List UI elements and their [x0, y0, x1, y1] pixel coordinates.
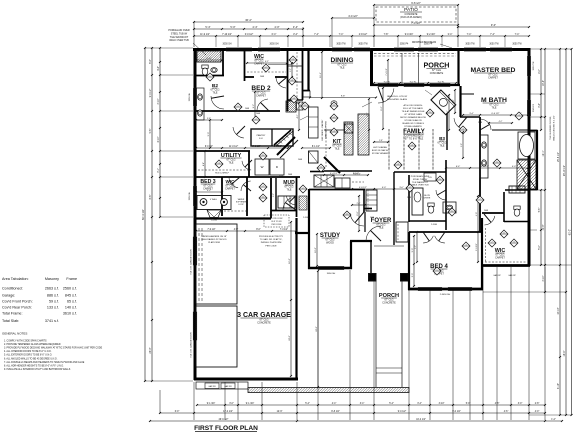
wall utility bottom — [194, 176, 300, 178]
svg-text:2468: 2468 — [279, 176, 283, 178]
svg-text:5'-8": 5'-8" — [539, 208, 541, 213]
door bed3 — [229, 177, 238, 188]
svg-text:5. ALL EXTERIOR DOORS TO BE 8: 5. ALL EXTERIOR DOORS TO BE 8'-0" U.N.O. — [4, 354, 53, 357]
window dining top 1 — [332, 47, 352, 49]
svg-text:5'-2": 5'-2" — [290, 68, 292, 72]
svg-text:CONCRETE: CONCRETE — [405, 14, 418, 16]
corridor cubbies — [314, 175, 334, 187]
window right wall master — [527, 56, 529, 76]
svg-text:2868: 2868 — [350, 189, 354, 191]
svg-text:59 s.f.: 59 s.f. — [49, 300, 59, 304]
wall bed4 top — [409, 231, 482, 233]
svg-text:HUTCH AREA: HUTCH AREA — [373, 146, 387, 149]
wall utility top — [194, 150, 250, 152]
svg-text:3'-0 1/2": 3'-0 1/2" — [245, 34, 254, 36]
linen b3 — [424, 173, 436, 181]
wall mud bottom — [271, 210, 297, 212]
svg-text:DROPPED BOX BEAM: DROPPED BOX BEAM — [412, 41, 436, 44]
svg-text:9'-2 3/4": 9'-2 3/4" — [427, 34, 436, 36]
svg-text:7'-4": 7'-4" — [515, 34, 520, 36]
toilet bath2 — [202, 65, 208, 75]
svg-text:10'-0": 10'-0" — [315, 247, 317, 253]
svg-text:3'-0": 3'-0" — [229, 403, 234, 405]
kitchen range — [345, 124, 354, 133]
dim patio width — [374, 24, 458, 26]
svg-text:3'-0": 3'-0" — [399, 187, 404, 189]
window study front — [318, 266, 344, 268]
door mud to hall — [287, 196, 296, 205]
svg-text:5'-4": 5'-4" — [205, 25, 210, 29]
svg-text:JAMB FULL LITE W/: JAMB FULL LITE W/ — [387, 95, 408, 98]
svg-text:14'-6": 14'-6" — [564, 350, 566, 356]
svg-text:7. ALL DOUBLE 2x BEAMS AND HE: 7. ALL DOUBLE 2x BEAMS AND HEADERS TO HA… — [4, 361, 85, 364]
interior dim garage right vertical — [290, 222, 292, 376]
svg-text:TILE WAINSCOT: TILE WAINSCOT — [412, 181, 429, 184]
svg-text:4'-0": 4'-0" — [274, 25, 279, 29]
svg-text:8'-1 1/2": 8'-1 1/2" — [312, 146, 320, 148]
svg-text:SLOPE CONC: SLOPE CONC — [270, 218, 283, 220]
sink bath2 — [211, 68, 217, 73]
kitchen pendant oval — [331, 101, 337, 105]
svg-text:4'-0": 4'-0" — [512, 166, 517, 168]
svg-text:9'-2": 9'-2" — [381, 106, 383, 111]
wall outer right — [528, 48, 531, 266]
svg-text:4'-2": 4'-2" — [297, 114, 299, 118]
svg-text:CARPET: CARPET — [225, 187, 235, 190]
pantry divider — [271, 129, 273, 146]
right dim outer — [571, 49, 573, 415]
corridor rod dashed — [352, 181, 364, 183]
closet foyer bed4 — [396, 222, 408, 242]
wall hall closets right — [302, 49, 304, 100]
svg-text:4'-0": 4'-0" — [476, 212, 478, 216]
extra small dims and marks — [196, 59, 222, 61]
window wic2 top — [258, 47, 280, 49]
svg-text:20'-0": 20'-0" — [150, 347, 152, 353]
mud lockers — [278, 196, 295, 208]
wall foyer right — [393, 172, 395, 245]
wall outer left — [194, 48, 197, 380]
interior dim chain center — [302, 147, 330, 149]
dim patio left — [332, 17, 374, 19]
svg-text:2-2668: 2-2668 — [377, 85, 383, 87]
door hall to corridor — [233, 127, 244, 138]
wall family east upper — [446, 113, 448, 150]
svg-text:9'-2": 9'-2" — [253, 104, 255, 109]
dining west double wall — [307, 51, 309, 90]
svg-text:TILE: TILE — [491, 106, 496, 109]
window right wall mbath — [527, 100, 529, 116]
svg-text:29'-6 1/2": 29'-6 1/2" — [219, 419, 229, 421]
wall bath2 bottom — [194, 75, 224, 77]
wall wic top — [482, 212, 504, 214]
svg-text:6'-0": 6'-0" — [357, 211, 359, 216]
door foyer entry — [366, 226, 381, 241]
svg-text:3'-10": 3'-10" — [158, 98, 160, 104]
dining south dim line — [310, 97, 376, 99]
wall toilet cell left — [503, 192, 505, 222]
svg-text:2468: 2468 — [260, 76, 264, 78]
svg-text:6'-10": 6'-10" — [558, 383, 560, 389]
svg-text:9'-0 1/2": 9'-0 1/2" — [205, 146, 213, 148]
wall corridor bottom — [194, 110, 280, 112]
svg-text:FLR TO DR: FLR TO DR — [272, 221, 283, 223]
svg-text:2468: 2468 — [298, 159, 302, 161]
front walk lines — [375, 281, 377, 387]
svg-text:3610 s.f.: 3610 s.f. — [63, 312, 77, 316]
svg-text:3050 SH: 3050 SH — [327, 273, 336, 275]
svg-text:42" UPPER CABS: 42" UPPER CABS — [404, 113, 422, 116]
svg-text:6. ALL ANGLED WALLS TO BE 45: 6. ALL ANGLED WALLS TO BE 45 DEGREE U.N.… — [4, 357, 58, 360]
svg-text:2668: 2668 — [478, 122, 482, 124]
garage platform rect lower — [196, 306, 237, 367]
wall bath2 right — [222, 49, 224, 76]
utility rod shelf dashed — [198, 169, 248, 171]
svg-text:GAS F/P: GAS F/P — [493, 274, 501, 277]
entry porch column left — [369, 274, 377, 282]
porch dim vertical — [387, 60, 389, 84]
interior dim kitchen lower — [324, 174, 368, 176]
svg-text:2'-4": 2'-4" — [357, 203, 361, 205]
svg-text:6'-4": 6'-4" — [456, 166, 461, 168]
wall study bottom — [308, 267, 352, 269]
dim top overall left wing — [194, 21, 303, 23]
bed3 vanity — [197, 196, 231, 210]
linen cab shower wall — [509, 186, 525, 193]
extension lines to bottom dims — [224, 382, 226, 420]
eave dashed line rear — [374, 53, 456, 55]
svg-text:3'-4": 3'-4" — [360, 403, 365, 405]
svg-text:FIRST FLOOR PLAN: FIRST FLOOR PLAN — [194, 425, 258, 432]
master tub deck — [518, 132, 535, 159]
svg-text:2-2668: 2-2668 — [303, 217, 309, 219]
patio dashed outline — [376, 7, 456, 22]
svg-text:TILE: TILE — [286, 188, 291, 191]
garage platform rect upper — [196, 224, 237, 304]
left dim outer — [144, 48, 146, 381]
svg-text:2'-8": 2'-8" — [535, 403, 540, 405]
interior dim mbath — [463, 114, 528, 116]
svg-text:5'-8": 5'-8" — [150, 129, 152, 134]
svg-text:CARPET: CARPET — [495, 256, 505, 259]
svg-text:4'-6": 4'-6" — [504, 411, 509, 413]
interior dim east hall — [446, 167, 528, 169]
wall study top — [309, 189, 365, 191]
svg-text:STONE VENEER: STONE VENEER — [372, 153, 389, 155]
wall garage top — [194, 217, 271, 219]
wall entry porch right bed4 left — [408, 232, 410, 290]
svg-text:6'-0": 6'-0" — [175, 411, 180, 413]
svg-text:3'-4": 3'-4" — [417, 403, 422, 405]
wall dining east porch left — [370, 48, 373, 86]
svg-text:24'-0": 24'-0" — [316, 326, 318, 332]
window bed4 front 1 — [418, 287, 442, 289]
wall b3 top — [394, 171, 446, 173]
svg-text:9'-8 1/2": 9'-8 1/2" — [331, 411, 340, 413]
svg-text:CABS 42" UPPERS: CABS 42" UPPERS — [325, 120, 328, 138]
wall bed3 wic divider — [221, 177, 223, 216]
wall kitchen family divider lower — [324, 170, 372, 172]
svg-text:845 s.f.: 845 s.f. — [65, 294, 77, 298]
family dashed coffer lines — [388, 129, 390, 170]
svg-text:2'-8 1/2": 2'-8 1/2" — [359, 34, 368, 36]
interior dim b3 hall — [352, 188, 409, 190]
porch front interior lines — [374, 245, 404, 247]
garage stoop — [196, 382, 248, 389]
svg-text:WALK OVER TUB: WALK OVER TUB — [412, 184, 430, 187]
svg-text:67" TO 8'-0" TILE: 67" TO 8'-0" TILE — [405, 137, 424, 140]
svg-text:9'-8": 9'-8" — [341, 96, 346, 98]
window porch posts top — [394, 47, 414, 49]
svg-text:4'-0": 4'-0" — [535, 411, 540, 413]
svg-text:TILE AT RAISED EDGE: TILE AT RAISED EDGE — [402, 110, 425, 113]
svg-text:2468: 2468 — [288, 174, 292, 176]
svg-text:3'-4": 3'-4" — [469, 113, 474, 115]
b2 vanity rect — [196, 88, 204, 120]
svg-text:CONCRETE: CONCRETE — [430, 72, 444, 75]
svg-text:1'-2": 1'-2" — [551, 419, 556, 421]
svg-text:3'-4": 3'-4" — [539, 103, 541, 108]
wall front at hall — [295, 232, 310, 234]
window dining top 2 — [354, 47, 370, 49]
wall foyer left — [364, 212, 366, 232]
wall hall b3 right — [445, 160, 447, 230]
svg-text:3'-4": 3'-4" — [293, 34, 298, 36]
svg-text:7'-4": 7'-4" — [339, 34, 344, 36]
mbath vanity counter — [480, 135, 488, 178]
svg-text:ISLAND W/ CORBELS: ISLAND W/ CORBELS — [402, 122, 424, 125]
svg-text:4'-4": 4'-4" — [203, 162, 205, 166]
svg-text:5'-0": 5'-0" — [208, 132, 210, 137]
wic2 rod dashed lines — [247, 71, 286, 73]
svg-text:7'-4": 7'-4" — [467, 34, 472, 36]
wall shower toilet divider — [505, 189, 529, 191]
garage dashed door tracks — [198, 228, 200, 302]
washer dryer utility — [255, 159, 269, 175]
svg-text:INSULATED GLASS: INSULATED GLASS — [387, 98, 408, 101]
svg-text:7'-9 1/2": 7'-9 1/2" — [207, 229, 215, 231]
svg-text:(FUR AS PLANNED): (FUR AS PLANNED) — [400, 16, 422, 19]
wall bed4 bottom — [408, 288, 483, 291]
wall front between study and porch — [350, 240, 372, 242]
right dim 4 — [559, 49, 561, 415]
svg-text:7'-4 1/2": 7'-4 1/2" — [386, 68, 388, 76]
dim top right seg — [458, 26, 529, 28]
mbath east bump walls — [529, 130, 538, 132]
svg-text:PANTRY: PANTRY — [257, 134, 266, 137]
leader wic label — [268, 64, 292, 66]
svg-text:B3: B3 — [439, 136, 445, 141]
svg-text:4'-0": 4'-0" — [382, 187, 387, 189]
toilet master — [514, 206, 520, 216]
svg-text:4' WALL: 4' WALL — [210, 198, 217, 201]
svg-text:3741 s.f.: 3741 s.f. — [45, 319, 59, 323]
svg-text:DRYER: DRYER — [424, 198, 431, 200]
svg-text:AT HOOD DESIGN:: AT HOOD DESIGN: — [404, 104, 423, 107]
wall utility right — [248, 151, 250, 177]
svg-text:3'-4": 3'-4" — [293, 25, 298, 29]
svg-text:9'-1 1/2": 9'-1 1/2" — [476, 243, 478, 251]
door rear porch to family — [378, 88, 394, 103]
svg-text:9'-0": 9'-0" — [491, 23, 496, 27]
svg-text:4'-4": 4'-4" — [252, 25, 257, 29]
window left wall b2 — [193, 88, 195, 106]
svg-text:2468: 2468 — [370, 217, 374, 219]
svg-text:5'-0": 5'-0" — [230, 25, 235, 29]
svg-text:3'-10": 3'-10" — [439, 403, 445, 405]
wall mud right — [296, 177, 298, 217]
door garage mud — [283, 198, 292, 210]
wall entry porch left — [370, 241, 372, 275]
wall b3 bottom — [409, 220, 446, 222]
kitchen wall counters — [325, 130, 327, 168]
b3 toilet — [428, 203, 434, 213]
kitchen west cabinets — [309, 107, 319, 138]
mbath door — [480, 119, 491, 130]
svg-text:6'-4": 6'-4" — [272, 34, 277, 36]
svg-text:STONE-GRANITE: STONE-GRANITE — [404, 125, 422, 128]
wall study right upper — [363, 190, 365, 212]
svg-text:2468: 2468 — [407, 197, 411, 199]
svg-text:BUILT-IN CAB W/: BUILT-IN CAB W/ — [372, 149, 389, 152]
svg-text:Frame: Frame — [66, 277, 77, 281]
svg-text:WALLS-CEILING 8'-1 1/2": WALLS-CEILING 8'-1 1/2" — [553, 115, 556, 141]
wall hall mid horizontal — [288, 99, 303, 101]
svg-text:STONE SLAB ON: STONE SLAB ON — [404, 119, 422, 122]
svg-text:TILE: TILE — [228, 161, 233, 164]
svg-text:3'-0": 3'-0" — [412, 273, 414, 278]
svg-text:12'-1": 12'-1" — [543, 150, 545, 156]
svg-text:2663 s.f.: 2663 s.f. — [45, 287, 59, 291]
interior dim bed2 vertical — [254, 92, 256, 120]
svg-text:5'x5': 5'x5' — [259, 138, 264, 140]
interior dim study vertical — [316, 234, 318, 266]
wall rear porch bottom — [370, 84, 460, 86]
svg-text:PROVIDE ELECTRICITY: PROVIDE ELECTRICITY — [259, 236, 284, 238]
svg-text:2-2660: 2-2660 — [431, 224, 437, 226]
door wic master — [484, 216, 494, 225]
svg-text:3050 P4: 3050 P4 — [400, 44, 409, 46]
svg-text:11'-9 1/2": 11'-9 1/2" — [200, 34, 210, 36]
svg-text:4'-1 1/2": 4'-1 1/2" — [481, 166, 489, 168]
svg-text:1. COMPLY WITH CODE SPAN CHAR: 1. COMPLY WITH CODE SPAN CHARTS — [4, 340, 47, 343]
svg-text:5'-0": 5'-0" — [539, 245, 541, 250]
svg-text:4. ALL INTERIOR DOORS TO BE 8: 4. ALL INTERIOR DOORS TO BE 8'-0" U.N.O. — [4, 350, 52, 353]
kitchen ovens — [309, 151, 319, 163]
svg-text:FULL HT TILE BACK: FULL HT TILE BACK — [403, 107, 424, 110]
closet shelves hall column — [288, 65, 303, 67]
wall study right — [350, 241, 352, 269]
interior dim foyer vertical — [358, 196, 360, 231]
svg-text:9'x8' O.H. GARAGE DOOR: 9'x8' O.H. GARAGE DOOR — [190, 249, 193, 275]
closet rod dashed hall — [296, 52, 298, 98]
svg-text:140 s.f.: 140 s.f. — [65, 306, 77, 310]
interior dim dining vertical — [321, 52, 323, 98]
svg-text:Conditioned:: Conditioned: — [2, 287, 23, 291]
window left wall bed3 — [193, 186, 195, 206]
interior dim chain west — [196, 147, 288, 149]
svg-text:3050 TW: 3050 TW — [489, 44, 499, 46]
svg-text:9'-0 3/4": 9'-0 3/4" — [405, 34, 414, 36]
svg-text:11'-0 1/2": 11'-0 1/2" — [229, 146, 239, 148]
svg-text:CARPET: CARPET — [488, 76, 498, 79]
bath2 door arc — [211, 96, 224, 109]
dim top sub row left — [194, 28, 303, 30]
front walk steps — [376, 367, 402, 369]
right dim 2 — [544, 49, 546, 292]
wall corridor top — [310, 171, 324, 173]
misc leader arrows — [362, 102, 372, 107]
svg-text:3050 TW: 3050 TW — [512, 44, 522, 46]
window bed4 front 2 — [448, 287, 472, 289]
door utility — [242, 161, 251, 170]
svg-text:3050 TW: 3050 TW — [465, 44, 475, 46]
svg-text:5'-4": 5'-4" — [305, 403, 310, 405]
right dim 1 — [540, 49, 542, 130]
svg-text:3050 SH: 3050 SH — [270, 44, 279, 46]
svg-text:2-2460: 2-2460 — [211, 220, 217, 222]
svg-text:4'-0 1/2": 4'-0 1/2" — [348, 14, 358, 18]
svg-text:4'-8 1/2": 4'-8 1/2" — [359, 187, 367, 189]
svg-text:8. ALL HDR-HEADER HEIGHTS TO: 8. ALL HDR-HEADER HEIGHTS TO BE 8'-0" A.… — [4, 364, 64, 367]
svg-text:CONCRETE: CONCRETE — [257, 321, 271, 324]
b3 tub — [412, 188, 423, 215]
wall mud chase — [275, 178, 277, 210]
svg-text:ROD & SHELF: ROD & SHELF — [215, 173, 230, 175]
b2 sink ovals — [198, 94, 203, 100]
svg-text:4'-6": 4'-6" — [453, 99, 455, 103]
wall wic2 bed2 divider — [244, 76, 254, 78]
interior dim wic vertical — [477, 196, 479, 262]
svg-text:4'-6": 4'-6" — [234, 229, 239, 231]
kitchen corner angled wall — [324, 157, 340, 173]
left dim inner — [159, 48, 161, 217]
svg-text:4'-4": 4'-4" — [158, 66, 160, 71]
svg-text:3050 SH: 3050 SH — [189, 92, 191, 101]
svg-text:5'-8": 5'-8" — [207, 118, 211, 120]
svg-text:WOOD: WOOD — [326, 241, 334, 244]
svg-text:2'-8": 2'-8" — [379, 140, 383, 142]
svg-text:Cov'd Rear Porch:: Cov'd Rear Porch: — [2, 306, 32, 310]
svg-text:TILE: TILE — [378, 226, 383, 229]
keynote diamonds — [234, 103, 242, 111]
svg-text:6'-2": 6'-2" — [265, 61, 269, 63]
svg-text:36'-4": 36'-4" — [245, 18, 252, 22]
svg-text:LOOP: LOOP — [238, 204, 244, 206]
svg-text:9'x8' O.H. GARAGE DOOR: 9'x8' O.H. GARAGE DOOR — [190, 332, 193, 358]
svg-text:7'-4 1/2": 7'-4 1/2" — [411, 21, 421, 25]
wall master bed stub — [460, 93, 474, 95]
svg-text:INSTALL PLATFORM: INSTALL PLATFORM — [261, 241, 282, 244]
svg-text:11'-1": 11'-1" — [320, 72, 322, 78]
bottom dim row 3 — [150, 420, 562, 422]
svg-text:886 s.f.: 886 s.f. — [47, 294, 59, 298]
b3 door — [436, 190, 446, 200]
svg-text:44'-4 1/2": 44'-4 1/2" — [416, 419, 426, 421]
bottom dim row 2 — [160, 412, 545, 414]
svg-text:9'-1 3/4": 9'-1 3/4" — [207, 403, 216, 405]
porch beam lines — [401, 53, 403, 84]
svg-text:W: W — [261, 165, 264, 169]
svg-text:3050 SH: 3050 SH — [223, 44, 232, 46]
wall mbath west upper — [479, 117, 481, 232]
wall mud left — [270, 178, 272, 218]
svg-text:PER CODE: PER CODE — [272, 224, 283, 226]
entry porch column right — [401, 274, 409, 282]
wic3 rod dashed — [224, 210, 246, 212]
bath2 vanity line — [197, 61, 221, 63]
svg-text:3'-1 1/2": 3'-1 1/2" — [274, 146, 282, 148]
